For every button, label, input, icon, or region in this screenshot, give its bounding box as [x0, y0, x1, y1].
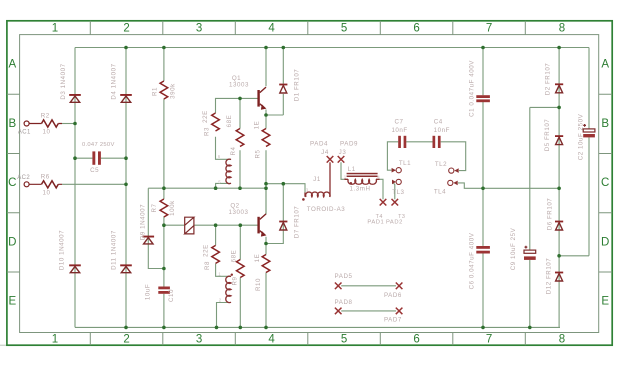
svg-text:C1 0.047uF 400V: C1 0.047uF 400V — [468, 60, 475, 117]
svg-text:8: 8 — [559, 23, 565, 35]
svg-text:68E: 68E — [226, 115, 233, 128]
svg-text:D: D — [8, 236, 16, 248]
svg-text:E: E — [601, 296, 609, 308]
svg-text:TL4: TL4 — [434, 188, 446, 195]
svg-text:D7 FR107: D7 FR107 — [294, 206, 301, 239]
svg-text:B: B — [601, 118, 609, 130]
svg-text:7: 7 — [486, 23, 492, 35]
svg-text:C: C — [8, 177, 16, 189]
svg-text:C4: C4 — [434, 118, 443, 125]
svg-text:D3 1N4007: D3 1N4007 — [60, 63, 67, 99]
svg-text:22E: 22E — [203, 244, 210, 257]
svg-text:2: 2 — [123, 334, 129, 346]
svg-text:TL2: TL2 — [435, 161, 447, 168]
svg-text:B: B — [8, 118, 16, 130]
svg-text:D10 1N4007: D10 1N4007 — [59, 230, 66, 270]
svg-text:C2 10uF 250V: C2 10uF 250V — [577, 113, 584, 160]
svg-text:AC1: AC1 — [18, 129, 31, 135]
svg-text:D1 FR107: D1 FR107 — [294, 69, 301, 102]
svg-text:J3: J3 — [339, 149, 347, 156]
svg-text:D: D — [601, 236, 609, 248]
svg-text:D9 1N4007: D9 1N4007 — [140, 204, 147, 240]
svg-text:PAD1: PAD1 — [367, 220, 384, 226]
svg-text:13003: 13003 — [229, 82, 249, 89]
svg-text:A: A — [8, 59, 16, 71]
svg-text:D2 FR107: D2 FR107 — [544, 63, 551, 96]
svg-text:TL3: TL3 — [392, 189, 404, 196]
svg-text:A: A — [601, 59, 609, 71]
svg-text:2: 2 — [123, 23, 129, 35]
svg-text:PAD7: PAD7 — [384, 317, 402, 324]
svg-text:TL1: TL1 — [399, 160, 411, 167]
svg-text:R8: R8 — [204, 261, 211, 270]
svg-text:R1: R1 — [152, 87, 159, 96]
svg-text:10nF: 10nF — [434, 127, 450, 134]
svg-text:PAD9: PAD9 — [340, 141, 358, 148]
svg-text:5: 5 — [341, 334, 347, 346]
svg-text:1E: 1E — [254, 254, 261, 263]
svg-text:4: 4 — [268, 334, 275, 346]
svg-text:C7: C7 — [394, 118, 403, 125]
svg-text:PAD6: PAD6 — [384, 292, 402, 299]
svg-text:390k: 390k — [170, 83, 177, 99]
svg-text:5: 5 — [341, 23, 347, 35]
svg-text:10: 10 — [43, 190, 51, 197]
svg-text:PAD8: PAD8 — [335, 299, 353, 306]
svg-text:100k: 100k — [169, 200, 176, 216]
svg-text:D11 1N4007: D11 1N4007 — [111, 230, 118, 270]
svg-text:D12 FR107: D12 FR107 — [545, 258, 552, 295]
svg-text:68E: 68E — [231, 250, 238, 263]
svg-text:1: 1 — [52, 334, 58, 346]
svg-text:PAD4: PAD4 — [310, 141, 328, 148]
svg-text:3: 3 — [196, 334, 202, 346]
svg-text:6: 6 — [413, 334, 419, 346]
svg-text:R2: R2 — [41, 113, 50, 120]
svg-text:10uF: 10uF — [145, 284, 152, 300]
svg-text:TOROID-A3: TOROID-A3 — [307, 206, 346, 213]
svg-text:PAD2: PAD2 — [386, 220, 403, 226]
svg-text:C5: C5 — [90, 167, 99, 174]
svg-text:J1: J1 — [313, 176, 321, 183]
svg-text:3: 3 — [196, 23, 202, 35]
svg-text:7: 7 — [486, 334, 492, 346]
svg-text:R6: R6 — [41, 174, 50, 181]
svg-text:R5: R5 — [255, 149, 262, 158]
svg-text:C: C — [601, 177, 609, 189]
svg-text:R4: R4 — [230, 146, 237, 155]
svg-text:J4: J4 — [321, 149, 329, 156]
svg-text:1: 1 — [52, 23, 58, 35]
svg-text:L1: L1 — [348, 166, 356, 173]
svg-text:D5 FR107: D5 FR107 — [544, 119, 551, 152]
svg-text:4: 4 — [268, 23, 275, 35]
svg-text:R7: R7 — [151, 203, 158, 212]
svg-text:1E: 1E — [254, 121, 261, 130]
svg-text:R10: R10 — [255, 278, 262, 291]
svg-text:6: 6 — [413, 23, 419, 35]
svg-text:C6 0.047uF 400V: C6 0.047uF 400V — [468, 232, 475, 289]
svg-text:22E: 22E — [202, 110, 209, 123]
svg-text:PAD5: PAD5 — [335, 273, 353, 280]
svg-text:D4 1N4007: D4 1N4007 — [111, 63, 118, 99]
svg-text:R3: R3 — [204, 127, 211, 136]
svg-text:8: 8 — [559, 334, 565, 346]
svg-text:1.3mH: 1.3mH — [350, 185, 371, 192]
svg-text:D6 FR107: D6 FR107 — [547, 198, 554, 231]
svg-text:0.047 250V: 0.047 250V — [82, 142, 115, 148]
svg-text:13003: 13003 — [229, 209, 249, 216]
svg-text:E: E — [8, 296, 16, 308]
svg-text:R9: R9 — [232, 276, 239, 285]
svg-text:C10: C10 — [168, 289, 175, 302]
svg-text:AC2: AC2 — [17, 175, 30, 181]
svg-text:C9 10uF 25V: C9 10uF 25V — [510, 227, 517, 270]
svg-text:10: 10 — [43, 129, 51, 136]
svg-text:10nF: 10nF — [391, 127, 407, 134]
